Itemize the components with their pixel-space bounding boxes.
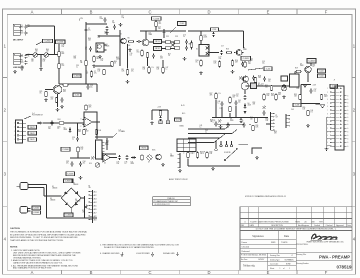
revision strip column ticks xyxy=(249,207,346,227)
svg-text:Date: Date xyxy=(284,235,290,238)
wire R38 leg xyxy=(187,159,189,166)
diode D11 xyxy=(131,156,136,159)
svg-text:F: F xyxy=(325,270,328,275)
resistor R21 xyxy=(45,91,47,97)
wire stage C right drop xyxy=(243,31,245,48)
capacitor C35 xyxy=(118,155,121,160)
row divider tick right xyxy=(352,140,356,142)
op-amp U2 xyxy=(82,117,94,127)
svg-text:Mech/Engineer: Mech/Engineer xyxy=(298,224,310,227)
wire stage B base xyxy=(98,35,120,37)
resistor R27 xyxy=(215,93,217,100)
wire TP stub0 xyxy=(215,141,217,148)
label C47 xyxy=(166,67,169,71)
value label R45 xyxy=(35,49,38,53)
resistor R39 xyxy=(196,152,198,159)
optocoupler OC1 xyxy=(166,40,171,44)
ground legend symbol 1 xyxy=(121,252,124,257)
svg-text:22u: 22u xyxy=(90,87,93,89)
svg-text:D: D xyxy=(207,10,210,15)
svg-text:Drawn: Drawn xyxy=(242,241,247,244)
wire OC1 to OC3 xyxy=(170,41,174,43)
svg-text:ASSY PRINT 978-32: ASSY PRINT 978-32 xyxy=(169,178,188,181)
svg-text:NOTES:: NOTES: xyxy=(10,247,18,249)
svg-text:AND STANDARD POSITION OF EACH: AND STANDARD POSITION OF EACH VISIT. xyxy=(13,267,52,270)
svg-text:1u: 1u xyxy=(85,49,87,51)
wire bottom rail xyxy=(47,217,98,219)
value label R54 xyxy=(106,141,109,145)
label VR2 xyxy=(43,59,46,63)
svg-text:1N4003: 1N4003 xyxy=(73,184,78,186)
zone divider tick top xyxy=(178,9,180,15)
value label C17 xyxy=(221,46,224,48)
label C19 xyxy=(262,61,265,65)
svg-text:Drafted: Drafted xyxy=(314,224,320,227)
wire L corner xyxy=(252,148,262,154)
label box C-58 xyxy=(293,103,301,107)
svg-text:NONE: NONE xyxy=(286,264,291,266)
value C4 xyxy=(21,61,24,65)
transistor Q2 xyxy=(121,38,127,44)
svg-text:10n: 10n xyxy=(236,96,239,98)
svg-text:J3: J3 xyxy=(241,54,243,56)
svg-text:10K: 10K xyxy=(303,109,306,111)
ground LED left xyxy=(150,122,154,125)
value label R58 xyxy=(210,120,213,124)
label footswitch xyxy=(32,113,44,117)
wire I top xyxy=(301,84,311,86)
transistor Q5 xyxy=(236,50,242,56)
svg-text:C-3004: C-3004 xyxy=(66,215,72,217)
svg-text:68K: 68K xyxy=(74,58,77,60)
wire J1 to node xyxy=(26,25,55,27)
value label R51 xyxy=(313,65,316,69)
wire to Q2 bus xyxy=(119,30,121,66)
svg-text:G: G xyxy=(347,95,348,97)
svg-text:R35: R35 xyxy=(297,88,300,90)
label VR1 xyxy=(31,59,34,63)
resistor R60 xyxy=(111,61,113,67)
junction xyxy=(119,35,120,36)
junction node A xyxy=(40,54,41,55)
ground E1 xyxy=(44,99,48,102)
value label C41 xyxy=(200,125,203,129)
svg-text:1K: 1K xyxy=(168,55,170,57)
bridge rectifier BR1 xyxy=(61,188,81,208)
svg-text:13: 13 xyxy=(326,131,328,133)
svg-text:SIGNAL GND: SIGNAL GND xyxy=(163,252,175,255)
svg-text:E: E xyxy=(267,10,270,15)
resistor R30b xyxy=(229,106,231,112)
capacitor C9 xyxy=(113,24,116,29)
svg-text:5088: 5088 xyxy=(149,34,153,36)
svg-text:A: A xyxy=(31,10,34,15)
resistor R26 xyxy=(83,129,85,135)
wire stage B low xyxy=(95,65,108,67)
capacitor C8 xyxy=(104,17,107,22)
label D1 xyxy=(52,186,57,190)
signatures text xyxy=(252,235,289,238)
svg-text:47K: 47K xyxy=(274,133,277,135)
value label R55 xyxy=(303,107,306,111)
svg-text:1u: 1u xyxy=(72,139,74,141)
junction xyxy=(67,122,68,123)
label U2 xyxy=(84,128,89,133)
wire Q5 to drop xyxy=(242,52,244,54)
capacitor C33 xyxy=(71,161,74,166)
svg-text:C17: C17 xyxy=(221,46,224,48)
svg-text:2n2: 2n2 xyxy=(21,27,24,29)
svg-text:473: 473 xyxy=(21,62,24,64)
svg-text:OC3: OC3 xyxy=(175,36,178,38)
svg-text:THAT EXPLAINED IN THE SYSTEM S: THAT EXPLAINED IN THE SYSTEM SEE INSTRUC… xyxy=(10,239,64,242)
svg-text:10n: 10n xyxy=(48,128,51,130)
svg-text:Case Code:: Case Code: xyxy=(270,264,279,266)
value label OC3 xyxy=(175,36,178,38)
svg-text:1: 1 xyxy=(289,268,290,270)
svg-text:ORIGINAL MATERIAL TESTING.: ORIGINAL MATERIAL TESTING. xyxy=(13,256,41,259)
value label R52 xyxy=(253,102,256,106)
wire to op-amp U2 xyxy=(43,122,85,124)
svg-text:10u: 10u xyxy=(62,46,65,48)
value label R46 xyxy=(46,49,49,53)
wire AC drop xyxy=(43,188,45,197)
connector J9 xyxy=(96,140,105,159)
wire bottom run xyxy=(59,83,97,85)
wire C44 down xyxy=(221,107,223,118)
svg-text:THIS SCHEMATIC IS INTENDED FOR: THIS SCHEMATIC IS INTENDED FOR USE AS A … xyxy=(10,230,88,233)
ground opto xyxy=(183,57,187,60)
svg-text:Checked: Checked xyxy=(326,225,333,227)
LED D5b xyxy=(84,205,88,209)
label box C-2006 xyxy=(61,147,70,151)
resistor R35 xyxy=(299,94,301,100)
resistor R17 xyxy=(244,61,246,68)
svg-text:Approved: Approved xyxy=(336,224,343,227)
address cells xyxy=(240,253,296,270)
notes right column xyxy=(100,243,180,255)
LED D3 xyxy=(239,76,243,80)
value label C43 xyxy=(291,109,294,111)
zone divider tick bottom xyxy=(60,270,62,274)
resistor R8 xyxy=(126,69,128,76)
zone divider tick top xyxy=(60,9,62,15)
label box C-2004 xyxy=(152,17,162,21)
optocoupler U3 circle xyxy=(241,82,249,90)
svg-text:10u: 10u xyxy=(262,63,265,65)
ground L xyxy=(255,156,259,159)
value label C39 xyxy=(76,65,79,69)
wire VR2 out xyxy=(48,54,59,56)
ground I2b triangle xyxy=(316,104,322,106)
value label C27 xyxy=(236,94,239,98)
svg-text:J7: J7 xyxy=(334,80,336,82)
svg-text:B: B xyxy=(90,270,93,275)
capacitor C45 xyxy=(235,100,238,105)
svg-text:Released: Released xyxy=(242,251,250,253)
resistor R1 xyxy=(58,51,60,58)
capacitor C1 xyxy=(24,24,27,29)
svg-text:+16V: +16V xyxy=(313,85,317,87)
svg-text:4148: 4148 xyxy=(230,120,234,122)
label box C-3001 xyxy=(64,179,73,183)
label box C-2002 xyxy=(43,39,53,43)
resistor R25 xyxy=(85,105,87,111)
wire Q8 base xyxy=(45,89,54,91)
diode D6b xyxy=(244,104,247,109)
transistor Q4 xyxy=(142,39,149,46)
wire down to C26 right xyxy=(96,122,98,139)
value label R10 xyxy=(98,36,101,40)
wire PS run xyxy=(70,157,90,159)
leader to label C-50 xyxy=(170,27,176,33)
diode D5 xyxy=(69,128,72,133)
capacitor C23 xyxy=(87,84,90,89)
svg-text:R19: R19 xyxy=(295,68,298,70)
label box C-2003 xyxy=(73,74,82,78)
resistor R59 xyxy=(103,69,105,75)
value label R49 xyxy=(105,32,108,36)
wire mid top run xyxy=(140,30,186,32)
value label J7 xyxy=(334,80,336,82)
svg-text:RLY4: RLY4 xyxy=(30,133,34,135)
svg-text:10u: 10u xyxy=(158,28,161,30)
address text xyxy=(241,255,295,271)
label K3 xyxy=(258,83,261,87)
svg-text:C-2005: C-2005 xyxy=(243,58,249,60)
svg-text:1N4003: 1N4003 xyxy=(50,200,55,202)
svg-text:C-2002: C-2002 xyxy=(45,41,51,43)
wire Q4 to RLY1 xyxy=(149,41,154,43)
label box C-2001 xyxy=(56,40,66,44)
label box C-4004 xyxy=(307,59,316,64)
transistor Q8 xyxy=(53,85,62,94)
svg-text:C-58: C-58 xyxy=(295,105,299,107)
svg-text:B-15: B-15 xyxy=(182,113,185,115)
svg-text:47u: 47u xyxy=(83,163,86,165)
svg-text:4148: 4148 xyxy=(64,129,68,131)
zone divider tick top xyxy=(296,9,298,15)
value label R50 xyxy=(250,59,253,63)
wire to main xyxy=(95,136,113,138)
svg-text:G: G xyxy=(347,103,348,105)
wire U3 down xyxy=(244,90,246,94)
svg-text:D: D xyxy=(207,270,210,275)
svg-text:R24: R24 xyxy=(58,119,61,121)
ground row xyxy=(161,163,165,166)
wire bridge bottom xyxy=(70,208,72,213)
label box C-3002 xyxy=(32,206,41,210)
transistor Q11 xyxy=(156,154,162,160)
optocoupler OC3 xyxy=(175,40,180,44)
svg-text:IN QUESTIONS OF BUILDING SPECI: IN QUESTIONS OF BUILDING SPECIAL IMPORTA… xyxy=(10,233,86,236)
svg-text:220: 220 xyxy=(86,73,89,75)
svg-text:PROJECT/FILE:: PROJECT/FILE: xyxy=(297,244,309,246)
svg-text:G: G xyxy=(347,110,348,112)
signature rows text xyxy=(242,241,288,253)
svg-text:U7: U7 xyxy=(148,162,150,164)
svg-text:Ear Time: Ear Time xyxy=(241,259,247,261)
svg-text:C-2001: C-2001 xyxy=(57,41,63,43)
svg-text:C-50: C-50 xyxy=(180,23,184,25)
svg-text:C-3006: C-3006 xyxy=(65,180,71,182)
svg-text:15: 15 xyxy=(326,139,328,141)
label J6 xyxy=(276,115,278,119)
svg-text:FOOTSWITCH: FOOTSWITCH xyxy=(32,115,44,117)
capacitor C5 xyxy=(21,65,24,70)
svg-text:5. THE GREEN/YELLOW CONTROLS N: 5. THE GREEN/YELLOW CONTROLS NO ONE DIME… xyxy=(100,243,180,246)
svg-text:1u: 1u xyxy=(76,67,78,69)
svg-text:078519 12 DRAWING REPLACES 078: 078519 12 DRAWING REPLACES 078519-11 xyxy=(245,195,287,198)
svg-text:10K: 10K xyxy=(210,153,213,155)
resistor R23 xyxy=(159,111,161,116)
label box RLY3 xyxy=(28,125,37,129)
capacitor C34 xyxy=(79,161,82,166)
value label R17 xyxy=(168,54,171,58)
ground stage B xyxy=(128,49,132,52)
wire R30b down xyxy=(229,113,231,118)
capacitor C25 xyxy=(51,120,54,125)
svg-text:1K: 1K xyxy=(313,66,315,68)
ground under U1 xyxy=(98,55,102,58)
label box RLY5 xyxy=(140,146,149,150)
transistor Q7 xyxy=(305,66,311,72)
svg-text:1u: 1u xyxy=(218,103,220,105)
capacitor C6 xyxy=(89,46,92,51)
svg-text:D10: D10 xyxy=(89,163,92,165)
svg-text:100n: 100n xyxy=(100,18,104,20)
label box C-50 xyxy=(178,22,187,26)
label box C-3004 xyxy=(64,213,73,217)
svg-text:G: G xyxy=(347,106,348,108)
wire H run6 xyxy=(188,142,214,144)
LED D6 xyxy=(218,119,222,123)
label box C-2005 xyxy=(241,56,251,60)
value label R56 xyxy=(274,131,277,135)
svg-text:CAUTION:: CAUTION: xyxy=(10,227,20,230)
wire U2 out xyxy=(92,121,100,123)
wire H run1 xyxy=(212,117,268,119)
svg-text:4N35: 4N35 xyxy=(106,46,110,48)
resistor R41 xyxy=(77,147,79,153)
optocoupler U1 xyxy=(96,43,107,52)
label R61 xyxy=(143,67,146,71)
junction xyxy=(249,124,250,125)
svg-text:17: 17 xyxy=(326,146,328,148)
wire R19 to K2 xyxy=(294,72,296,75)
svg-text:01 078519 P550-1 12 1: 01 078519 P550-1 12 1 xyxy=(155,204,171,206)
svg-text:47u: 47u xyxy=(94,73,97,75)
svg-text:G: G xyxy=(347,113,348,115)
ground I2 xyxy=(306,124,310,127)
wire run to Q4 xyxy=(145,31,147,39)
resistor R18 xyxy=(254,77,256,83)
svg-text:10K: 10K xyxy=(46,51,49,53)
wire to R62 xyxy=(162,60,164,66)
value label R53 xyxy=(266,119,269,123)
svg-text:1: 1 xyxy=(280,268,281,270)
svg-text:100: 100 xyxy=(248,63,251,65)
wire I drop xyxy=(300,85,302,104)
wire RLY1 to OC1 xyxy=(162,41,166,43)
zone divider tick top xyxy=(119,9,121,15)
value C15 xyxy=(160,56,164,60)
label D3 xyxy=(50,198,55,202)
ground at C9 xyxy=(119,23,123,26)
value label C38 xyxy=(62,45,65,49)
capacitor C3 xyxy=(24,54,27,59)
svg-text:C-2004: C-2004 xyxy=(153,18,159,20)
svg-text:Drawing, Rev:: Drawing, Rev: xyxy=(270,255,281,257)
ground stage C left xyxy=(199,72,203,75)
svg-text:16: 16 xyxy=(326,142,328,144)
capacitor C2 xyxy=(24,30,27,35)
ground TP xyxy=(211,167,215,170)
svg-text:7/14/99 DATE RESTYLED PER ECN: 7/14/99 DATE RESTYLED PER ECN 9838 RWS J… xyxy=(250,220,324,223)
capacitor C30 xyxy=(243,122,246,127)
svg-text:C-2003: C-2003 xyxy=(74,76,80,78)
svg-text:10K: 10K xyxy=(106,142,109,144)
svg-text:C-51: C-51 xyxy=(213,29,217,31)
wire TP stub1 xyxy=(220,141,222,145)
resistor R12 xyxy=(200,35,202,42)
wire AC neutral xyxy=(31,187,44,189)
svg-text:C-2006: C-2006 xyxy=(63,149,69,151)
capacitor C26 xyxy=(76,136,79,141)
wire U5 out xyxy=(110,157,117,159)
LED DS2 xyxy=(166,121,170,124)
capacitor C22 xyxy=(61,97,64,102)
resistor R16 xyxy=(231,60,233,67)
label D5b xyxy=(82,210,86,214)
wire to R8 xyxy=(127,44,129,68)
LED DS1 xyxy=(159,121,163,124)
AC plug P1 xyxy=(17,183,32,190)
svg-text:RLY3: RLY3 xyxy=(30,127,34,129)
svg-text:CAPACITORS VALUES IN MICROFARA: CAPACITORS VALUES IN MICROFARADS 250 100… xyxy=(13,262,63,265)
value R1a xyxy=(28,25,30,29)
value label F1 xyxy=(89,186,91,190)
svg-text:10K: 10K xyxy=(35,51,38,53)
resistor R36 xyxy=(320,94,322,100)
potentiometer VR3 xyxy=(282,86,287,91)
resistor R61 xyxy=(148,66,150,74)
svg-text:RLY2: RLY2 xyxy=(155,48,159,50)
relay K1 box xyxy=(199,45,209,57)
pin numbers J5 xyxy=(14,123,15,141)
svg-text:C-4004: C-4004 xyxy=(308,60,314,62)
wire into bridge xyxy=(44,195,62,197)
ground E3 xyxy=(56,108,60,111)
label R20 xyxy=(63,90,67,94)
ground PS xyxy=(79,176,83,179)
svg-text:B+15: B+15 xyxy=(181,105,185,107)
svg-text:C-3002: C-3002 xyxy=(33,207,39,209)
signatures box xyxy=(240,231,296,271)
jack J4 box xyxy=(281,76,288,81)
value C3 xyxy=(21,55,24,59)
resistor R28 xyxy=(263,94,265,101)
resistor R4 xyxy=(93,56,95,63)
capacitor C14 xyxy=(185,45,188,50)
LED D2 xyxy=(206,51,210,55)
resistor R22 xyxy=(55,97,57,103)
label C7 xyxy=(94,71,97,75)
label Q3 xyxy=(149,33,153,37)
zone divider tick bottom xyxy=(178,270,180,274)
value label D8 xyxy=(230,119,234,123)
svg-text:R13: R13 xyxy=(226,49,229,51)
